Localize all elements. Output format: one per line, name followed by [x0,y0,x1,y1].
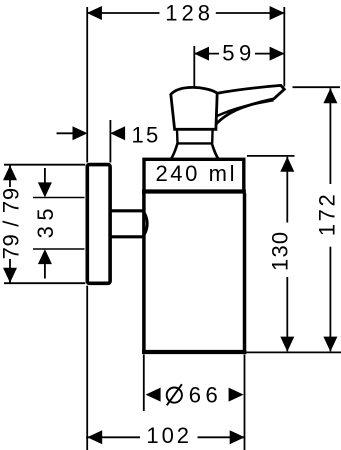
holder plate box (240 ml) [142,159,246,191]
extension line holder top y=156.3 [247,155,295,157]
dimension 172 line [329,88,331,351]
dimension 172 top arrow [323,88,337,103]
extension line left main (x=87) lower [86,286,88,450]
extension line below container left x=143.8 [143,355,145,412]
arm bottom line [112,235,144,238]
dimension 102 text [146,423,192,448]
extension line below container right x=244.5 [244,355,246,450]
dimension 128 text [165,0,214,25]
extension line center axis x=194.3 [193,46,195,87]
dimension 15 tail line [57,132,74,134]
dimension 130 top arrow [280,157,294,172]
pump head body [171,87,217,129]
dimension 35 bottom arrow [38,249,52,278]
extension line lever tip x=284.3 [283,7,285,87]
extension line x=110.4 for 15 dim [109,120,111,163]
dimension 79/79 bottom arrow [3,268,17,283]
svg-text:130: 130 [268,231,293,271]
svg-text:240 ml: 240 ml [155,161,237,186]
dimension 130 line [286,157,288,352]
pump neck [177,129,213,143]
dimension 35 text [33,203,58,238]
dimension 15 right arrow [110,126,125,140]
dimension 59 line [194,53,284,55]
dimension 35 top arrow [38,168,52,197]
lever crease line [217,100,273,116]
dimension 79/79 top arrow [3,165,17,180]
dimension 128 left arrow [87,6,102,20]
dimension 130 text [268,231,293,271]
svg-text:79 / 79: 79 / 79 [0,187,23,259]
svg-text:35: 35 [33,203,58,238]
dimension 102 right arrow [230,430,245,444]
extension line 35 bottom y=249 [33,248,85,250]
dimension 59 text [222,41,255,66]
dimension 102 line [86,436,244,438]
pump collar flare [170,143,219,160]
extension line 35 top y=197.5 [33,197,85,199]
glass container [142,193,246,352]
svg-text:128: 128 [165,0,214,25]
dimension diameter 66 right arrow [229,388,244,402]
extension line 79 bottom y=283.2 [4,282,85,284]
arm top line [112,209,144,212]
svg-text:102: 102 [146,423,192,448]
dimension 128 line [87,12,284,14]
svg-text:66: 66 [189,383,222,408]
svg-text:59: 59 [222,41,255,66]
extension line lever top y=87 [293,86,341,88]
pump lever [216,85,284,124]
label 240 ml [155,161,237,186]
dimension 102 left arrow [87,430,102,444]
dimension diameter 66 text [167,383,223,408]
svg-text:172: 172 [314,192,339,237]
dimension 15 left arrow [73,126,88,140]
dimension 79/79 line [9,166,11,283]
dimension 172 text [314,192,339,237]
dimension 59 left arrow [194,47,209,61]
dimension 59 right arrow [270,47,285,61]
extension line 79 top y=164.7 [4,164,85,166]
arm rounded end [144,211,148,236]
dimension 130 bottom arrow [280,337,294,352]
dimension 15 text [131,122,160,147]
dimension 172 bottom arrow [323,337,337,352]
dimension 79/79 text [0,187,23,259]
extension line container bottom y=352.4 [247,351,341,353]
extension line left main (x=87) upper [86,7,88,163]
wall plate [87,165,110,284]
svg-text:15: 15 [131,122,160,147]
dimension diameter 66 left arrow [146,388,161,402]
dimension 128 right arrow [270,6,285,20]
